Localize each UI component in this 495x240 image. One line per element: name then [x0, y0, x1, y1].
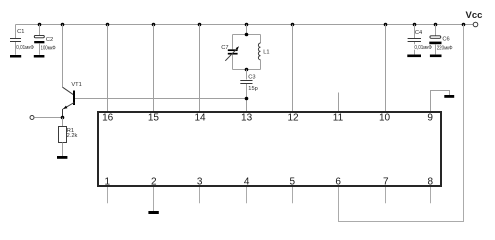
- svg-text:4: 4: [244, 177, 250, 188]
- wire: tank top side: [233, 34, 261, 36]
- wire: input to emitter/R1 node: [34, 117, 62, 119]
- node: base line junction on pin 13 wire: [245, 97, 249, 101]
- svg-text:8: 8: [428, 177, 434, 188]
- node: rail junction C6: [434, 23, 438, 27]
- svg-text:15p: 15p: [248, 86, 257, 92]
- ground (R1): [57, 156, 67, 159]
- capacitor C6 (electrolytic): [429, 25, 441, 55]
- wire: node to R1: [62, 118, 64, 127]
- svg-text:14: 14: [194, 113, 206, 124]
- ground (C6): [430, 55, 442, 58]
- svg-text:7: 7: [383, 177, 389, 188]
- node: rail junction pin 15: [152, 23, 156, 27]
- ground (C1): [10, 55, 21, 58]
- svg-text:C2: C2: [46, 37, 53, 43]
- node: rail junction C2: [38, 23, 42, 27]
- node: rail junction pin 12: [291, 23, 295, 27]
- svg-text:C7: C7: [221, 45, 228, 51]
- ground (C4): [407, 55, 421, 58]
- wire: tank bottom side: [233, 69, 261, 71]
- svg-text:0,01мкФ: 0,01мкФ: [16, 45, 34, 51]
- inductor L1: [258, 35, 260, 70]
- wire: C3 to pin 13: [246, 84, 248, 111]
- resistor R1: [59, 127, 67, 143]
- svg-text:220мкФ: 220мкФ: [437, 45, 453, 51]
- IC U1 body: [98, 112, 441, 186]
- ground (C2): [34, 55, 45, 58]
- svg-text:10: 10: [379, 113, 391, 124]
- wire: pin 8 stub: [430, 187, 432, 203]
- wire: pin 7 stub: [385, 187, 387, 203]
- wire: rail to pin 12: [292, 25, 294, 112]
- node: rail junction pin 16: [106, 23, 110, 27]
- wire: R1 to ground: [62, 143, 64, 157]
- wire: right side loop (Vcc rail to pin 6): [339, 25, 464, 222]
- capacitor C1: [10, 25, 21, 55]
- node: rail junction pin 14: [198, 23, 202, 27]
- capacitor C3: [240, 81, 252, 84]
- svg-text:2: 2: [151, 177, 157, 188]
- wire: pin 4 stub: [246, 187, 248, 203]
- wire: rail to pin 10: [385, 25, 387, 112]
- svg-text:1: 1: [105, 177, 111, 188]
- svg-text:0,01мкФ: 0,01мкФ: [414, 45, 432, 51]
- value label 0,01мкФ (C4): [414, 44, 433, 49]
- wire: rail to tank top: [246, 25, 248, 35]
- wire: rail to pin 16: [107, 25, 109, 112]
- svg-text:3: 3: [197, 177, 203, 188]
- terminal Vcc: [473, 22, 478, 27]
- svg-text:15: 15: [148, 113, 160, 124]
- wire: pin 5 stub: [292, 187, 294, 203]
- capacitor C7 (variable): [225, 35, 239, 70]
- value label 220мкФ (C6): [436, 45, 453, 50]
- svg-text:Vcc: Vcc: [466, 10, 483, 21]
- svg-text:L1: L1: [263, 50, 269, 56]
- capacitor C4: [408, 25, 421, 55]
- node: tank top junction: [245, 33, 249, 37]
- wire: rail to pin 14: [199, 25, 201, 112]
- wire: VT1 base to pin 13 net: [75, 98, 247, 100]
- svg-text:16: 16: [102, 113, 114, 124]
- svg-text:C1: C1: [17, 29, 24, 35]
- node: rail junction Vcc/pin6 loop: [462, 23, 466, 27]
- node: rail junction VT1 collector: [61, 23, 65, 27]
- svg-text:9: 9: [427, 113, 433, 124]
- svg-text:13: 13: [241, 113, 253, 124]
- svg-text:C4: C4: [415, 30, 422, 36]
- svg-text:5: 5: [290, 177, 296, 188]
- node: rail junction tank: [245, 23, 249, 27]
- node: rail junction pin 10: [384, 23, 388, 27]
- ground (pin 2): [148, 211, 158, 214]
- wire: pin 11 stub: [338, 93, 340, 112]
- wire: pin 1 stub: [107, 187, 109, 203]
- svg-text:C6: C6: [442, 37, 449, 43]
- wire: pin 3 stub: [199, 187, 201, 203]
- svg-text:6: 6: [335, 177, 341, 188]
- svg-text:VT1: VT1: [71, 82, 81, 88]
- node: tank bottom junction: [245, 68, 249, 72]
- wire: VT1 collector: [62, 25, 64, 88]
- svg-text:C3: C3: [248, 75, 255, 81]
- svg-text:100мкФ: 100мкФ: [41, 46, 56, 52]
- node: emitter/R1 junction: [61, 116, 65, 120]
- input terminal: [30, 116, 34, 120]
- svg-text:2.2k: 2.2k: [67, 133, 78, 139]
- svg-text:11: 11: [333, 113, 344, 124]
- wire: rail to pin 15: [153, 25, 155, 112]
- capacitor C2 (electrolytic): [34, 25, 44, 55]
- svg-text:12: 12: [287, 113, 299, 124]
- ground (pin 9): [444, 95, 454, 98]
- wire: top Vcc rail: [16, 24, 474, 26]
- node: rail junction C4: [413, 23, 417, 27]
- wire: pin 9 to ground arm: [431, 91, 450, 112]
- wire: tank to C3: [246, 70, 248, 80]
- transistor VT1: [63, 87, 76, 117]
- wire: pin 2 stub: [153, 187, 155, 211]
